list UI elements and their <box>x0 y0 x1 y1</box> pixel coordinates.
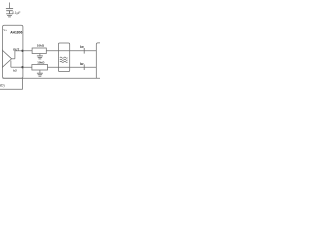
wire vertical to OUT2 <box>10 61 12 68</box>
wire vertical to OUT1 <box>14 51 16 59</box>
ground (below C1) <box>6 14 13 17</box>
cable W1 squiggles <box>60 57 68 62</box>
svg-text:OUT: OUT <box>13 47 19 51</box>
label Iw bottom <box>80 62 84 66</box>
ground rail <box>3 77 100 79</box>
resistor R2 <box>32 65 48 71</box>
label pin V+ <box>3 28 7 32</box>
label Iw top <box>80 45 84 49</box>
svg-text:ND): ND) <box>0 83 5 87</box>
resistor R1 <box>32 48 46 54</box>
svg-text:10kΩ: 10kΩ <box>37 43 45 47</box>
wire bottom net <box>23 66 96 68</box>
label AH1806 <box>10 31 22 35</box>
pin tick bottom <box>83 64 85 70</box>
ground (below R2) <box>37 70 43 76</box>
svg-text:AH1806: AH1806 <box>10 31 22 35</box>
op-amp U1a <box>3 50 12 67</box>
svg-text:V+: V+ <box>3 28 7 32</box>
pin tick top <box>83 48 85 54</box>
svg-text:IW: IW <box>80 62 84 66</box>
label OUT (pin1) <box>13 47 19 51</box>
label b2 (pin2) <box>13 68 17 72</box>
wire top net <box>23 50 96 52</box>
svg-text:0.1µF: 0.1µF <box>12 11 20 15</box>
wire apex stub <box>12 58 15 60</box>
label 0.1uF <box>12 11 20 15</box>
label caption text (cropped) <box>0 83 5 87</box>
ECU box (cropped right) <box>96 43 100 78</box>
ground (below R1) <box>37 54 43 59</box>
label R2 value <box>37 60 45 64</box>
node pin2 <box>21 66 23 68</box>
node pin1 <box>21 50 23 52</box>
IC U1 AH1806 box <box>3 25 23 78</box>
cable W1 box <box>58 43 69 72</box>
svg-text:IW: IW <box>80 45 84 49</box>
label R1 value <box>37 43 45 47</box>
wire OUT2 inner <box>11 66 23 68</box>
svg-text:10kΩ: 10kΩ <box>37 60 45 64</box>
wire OUT1 inner <box>15 50 23 52</box>
svg-text:b2: b2 <box>13 68 17 72</box>
caption box (cropped bottom-left) <box>0 78 22 89</box>
wire VDD stub to C1 <box>9 3 11 9</box>
capacitor C1 <box>6 9 13 14</box>
